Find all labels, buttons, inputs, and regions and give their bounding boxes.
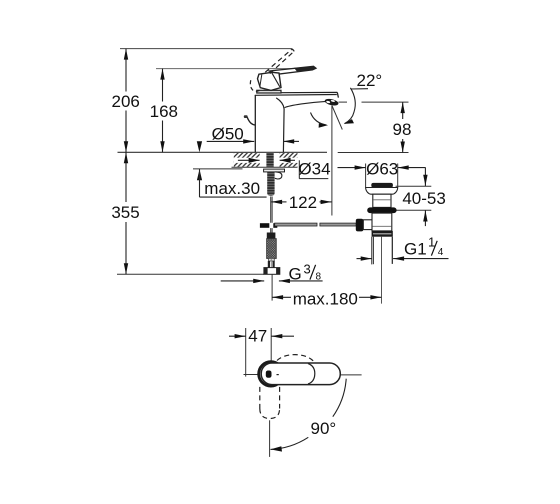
dimension max.30 xyxy=(197,141,202,152)
mounting shank through countertop xyxy=(266,153,273,167)
left swing arrow xyxy=(311,113,327,126)
drain centerline xyxy=(381,237,383,304)
braided hose xyxy=(267,239,277,259)
countertop hatch right xyxy=(280,153,298,167)
top view: left centerline xyxy=(244,374,259,376)
gasket reference line xyxy=(395,209,431,211)
pull rod knob on body xyxy=(247,117,255,125)
pop-up rod cross clamp xyxy=(260,223,277,228)
svg-text:47: 47 xyxy=(248,327,267,346)
dimension max.180 xyxy=(272,296,291,298)
rod end knob xyxy=(356,219,364,232)
washer xyxy=(264,169,285,172)
svg-text:3: 3 xyxy=(304,262,311,277)
hose top block xyxy=(267,233,276,239)
drain bottom band xyxy=(372,231,393,237)
dimension G1 1/4 xyxy=(357,258,372,260)
dimension 122 xyxy=(271,201,286,203)
dimension 40-53 xyxy=(424,168,426,186)
hose bottom reference line 355 xyxy=(117,273,264,275)
top view: dashed down handle xyxy=(260,387,280,419)
flange extension right xyxy=(397,164,399,188)
collar under lever xyxy=(257,90,281,93)
drain neck xyxy=(373,194,391,207)
lever knob xyxy=(258,72,282,90)
drain rod block xyxy=(363,220,372,230)
countertop bottom line xyxy=(232,166,298,168)
spout axis reference line 98 top xyxy=(339,101,348,103)
max180 left extension xyxy=(271,275,273,301)
washer hook xyxy=(275,172,282,179)
lever raised dashed xyxy=(250,49,294,91)
aerator xyxy=(324,98,339,107)
dimension diameter 34 xyxy=(238,159,260,161)
top view: right centerline xyxy=(341,374,362,376)
countertop top line xyxy=(118,151,328,153)
top view: dashed raised handle xyxy=(277,355,313,361)
svg-text:355: 355 xyxy=(111,203,139,222)
dimension 355 xyxy=(125,152,127,274)
svg-text:G1: G1 xyxy=(404,240,427,259)
svg-text:G: G xyxy=(289,265,302,284)
countertop hatch left xyxy=(234,153,260,167)
stream tilted line xyxy=(332,106,342,130)
dimension diameter 50 xyxy=(207,140,255,142)
90 degree arc xyxy=(333,379,346,417)
svg-text:22°: 22° xyxy=(357,71,383,90)
svg-text:Ø34: Ø34 xyxy=(298,159,330,178)
top view: lever end arc xyxy=(308,364,315,385)
svg-text:8: 8 xyxy=(316,271,322,282)
lever blade xyxy=(269,66,316,74)
hose nut xyxy=(264,268,280,275)
svg-text:Ø63: Ø63 xyxy=(366,160,398,179)
threaded rod xyxy=(267,172,274,196)
svg-text:122: 122 xyxy=(289,193,317,212)
svg-text:Ø50: Ø50 xyxy=(212,124,244,143)
countertop top line right segment xyxy=(338,152,409,154)
drain body xyxy=(372,213,392,231)
max30 reference line xyxy=(193,168,243,170)
22 degree arc xyxy=(345,88,356,124)
top view: vertical centerline below xyxy=(269,420,271,457)
extension line 168 xyxy=(156,68,315,70)
hatch white channel xyxy=(234,158,298,163)
drain tailpipe xyxy=(371,237,373,265)
svg-text:90°: 90° xyxy=(311,419,337,438)
svg-text:98: 98 xyxy=(393,120,412,139)
top view: body circle xyxy=(259,362,283,386)
flange underside reference line xyxy=(396,185,432,187)
dimension 168 xyxy=(162,69,164,153)
pop-up rod vertical xyxy=(270,197,272,223)
top view: lever mark xyxy=(266,371,272,378)
top view: dimension 47 xyxy=(245,328,247,377)
svg-text:40-53: 40-53 xyxy=(402,189,445,208)
hose ferrule band xyxy=(269,258,275,261)
top view: handle stadium xyxy=(261,363,340,385)
drain gasket xyxy=(367,207,396,213)
svg-text:max.30: max.30 xyxy=(204,179,260,198)
svg-text:4: 4 xyxy=(438,247,444,258)
drain cap bar xyxy=(371,183,393,188)
pop-up rod horizontal right segment xyxy=(320,223,356,226)
flange extension left xyxy=(365,164,367,188)
hose clevis fork xyxy=(268,261,270,268)
water stream vertical line xyxy=(331,106,333,216)
pop-up rod horizontal left segment xyxy=(275,223,317,226)
drain flange xyxy=(366,188,398,195)
extension line top 206 xyxy=(120,48,293,50)
dimension G3/8 xyxy=(221,280,265,282)
svg-text:168: 168 xyxy=(150,102,178,121)
dimension 206 xyxy=(125,49,127,153)
faucet body xyxy=(255,92,339,152)
svg-text:max.180: max.180 xyxy=(293,290,358,309)
dimension 98 xyxy=(402,102,404,152)
svg-text:206: 206 xyxy=(112,92,140,111)
dimension diameter 63 xyxy=(338,167,366,169)
